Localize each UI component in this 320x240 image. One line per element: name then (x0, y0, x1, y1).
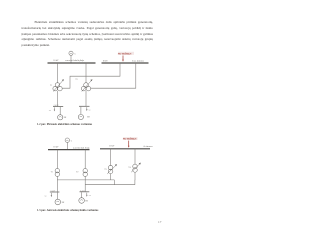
red arrow 1 (122, 56, 124, 62)
wire T1 tertiary to right bus (62, 63, 120, 88)
svg-text:s.r.: s.r. (89, 109, 92, 111)
bus section 1 left (48, 62, 96, 64)
svg-text:rezervinė kab. linija: rezervinė kab. linija (73, 147, 89, 149)
wire bus2 to T3 (110, 149, 112, 166)
svg-text:rezervinė kabelių linija: rezervinė kabelių linija (65, 60, 84, 62)
wire G1 to bus (70, 55, 72, 63)
svg-text:T3: T3 (104, 169, 106, 171)
tie line A (57, 179, 114, 181)
wire G2 to bus (66, 142, 68, 149)
svg-text:s.r.: s.r. (49, 110, 52, 112)
wire T4 down (134, 172, 136, 180)
transformer T2 (schematic 2, two-winding) (83, 169, 87, 177)
transformer T1 (schematic 2, two-winding) (55, 169, 59, 177)
svg-text:SM: SM (85, 200, 88, 202)
generator G1 (69, 51, 73, 55)
wire bar to motor 2 (80, 107, 82, 115)
motor M2 schematic 2 (79, 198, 85, 204)
svg-text:10 kV: 10 kV (53, 60, 59, 62)
page number (158, 220, 161, 224)
load arrow column 1 (54, 107, 55, 111)
wire T2 tertiary to right bus (91, 63, 136, 88)
wire bus1 to T1 (57, 63, 59, 83)
motor M2 (78, 114, 83, 119)
svg-text:10 kV: 10 kV (103, 61, 109, 63)
tie stub col4 (134, 180, 136, 185)
svg-text:T2: T2 (76, 171, 78, 173)
LV bar column 2 schematic 2 (80, 191, 90, 193)
svg-text:iš en. sistemos: iš en. sistemos (132, 60, 144, 62)
red annotation text 2 (123, 137, 138, 140)
wire bar to motor 1 (59, 107, 61, 115)
caption figure 1.3 (37, 209, 98, 212)
wire T2b down (84, 176, 86, 191)
transformer T4 (two-winding, regulated) (133, 164, 138, 172)
svg-text:SM: SM (87, 117, 90, 119)
wire T1 secondary down (57, 91, 59, 107)
LV bar column 2 (79, 105, 90, 107)
LV bar column 1 schematic 2 (50, 191, 60, 193)
bus section 1 right (102, 62, 149, 64)
svg-text:T4: T4 (128, 167, 130, 169)
load arrow col1 schematic 2 (51, 193, 52, 197)
svg-text:s.r.: s.r. (45, 196, 48, 198)
generator G2 (65, 138, 69, 142)
T1 tap-changer arrow (53, 79, 64, 91)
red annotation text 1 (118, 52, 134, 55)
motor M1 schematic 2 (55, 199, 61, 205)
wire bar to motor col1 schematic 2 (56, 192, 58, 199)
T3 tap-changer arrow (107, 164, 117, 174)
svg-text:NUTRŪKĘS: NUTRŪKĘS (118, 53, 132, 56)
svg-text:s.r.: s.r. (89, 195, 92, 197)
tie jog A-B (113, 180, 115, 185)
wire bar to motor col2 schematic 2 (81, 192, 83, 198)
transformer T3 (two-winding, regulated) (108, 165, 113, 173)
svg-text:G: G (74, 53, 76, 55)
wire bus1 to T2 (85, 63, 87, 83)
T4 tap-changer arrow (131, 163, 141, 173)
svg-text:SM: SM (62, 202, 65, 204)
paragraph text (22, 20, 154, 48)
LV bar column 1 (53, 106, 63, 108)
load arrow col2 schematic 2 (86, 193, 87, 197)
svg-text:G: G (71, 140, 73, 142)
svg-text:T1: T1 (50, 85, 52, 87)
svg-text:NUTRŪKĘS: NUTRŪKĘS (123, 138, 137, 141)
svg-text:10 kV: 10 kV (109, 146, 115, 148)
wire bus2 to T4 (134, 149, 136, 165)
svg-text:SM: SM (64, 117, 67, 119)
transformer T1 (three-winding) (53, 83, 62, 91)
caption figure 1.2 (37, 123, 92, 126)
wire T3 down (110, 174, 112, 180)
motor M1 (58, 115, 63, 120)
load arrow column 2 (86, 107, 87, 111)
T2 tap-changer arrow (82, 79, 93, 91)
wire bus2 to T1b (56, 150, 58, 169)
svg-text:iš sistemos: iš sistemos (144, 146, 153, 148)
svg-text:T2: T2 (75, 79, 77, 81)
wire bus2 to T2b (84, 150, 86, 169)
wire T2 secondary down (85, 91, 87, 107)
wire T1b down (56, 176, 58, 191)
bus section 2 left (48, 149, 90, 151)
svg-text:T1: T1 (51, 171, 53, 173)
tie line B (85, 184, 135, 186)
transformer T2 (three-winding) (81, 83, 90, 91)
red arrow 2 (128, 141, 130, 148)
bus section 2 right (100, 148, 150, 150)
svg-text:10 kV: 10 kV (53, 147, 59, 149)
